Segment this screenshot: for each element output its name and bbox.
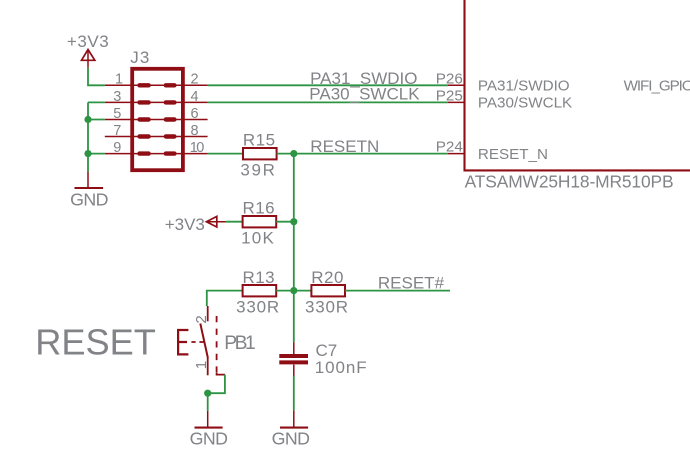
wire pin5 — [88, 119, 105, 121]
wire +3V3 to R16 — [226, 221, 243, 223]
svg-text:P25: P25 — [436, 87, 463, 104]
PB1 actuator dashes horizontal — [191, 341, 204, 343]
PB1 actuator dashes vertical — [216, 316, 218, 373]
wire PB1 to GND — [207, 393, 209, 411]
svg-text:4: 4 — [191, 89, 199, 105]
power symbol +3V3 (at R16) — [165, 215, 226, 234]
svg-text:PA30_SWCLK: PA30_SWCLK — [309, 84, 420, 103]
svg-text:330R: 330R — [305, 297, 349, 316]
svg-text:R13: R13 — [242, 268, 275, 287]
J3 pin pads — [140, 85, 175, 153]
wire C7 to GND — [293, 376, 295, 411]
svg-text:1: 1 — [115, 72, 123, 88]
junction R13/R20 — [290, 287, 297, 294]
junction at R16 — [290, 218, 297, 225]
IC pin stub P26 — [448, 84, 465, 86]
junction pin9 — [84, 150, 91, 157]
wire PB1 to junction — [208, 375, 225, 394]
svg-text:RESET_N: RESET_N — [478, 146, 548, 163]
svg-text:6: 6 — [191, 106, 199, 122]
svg-text:R15: R15 — [243, 131, 276, 150]
svg-text:RESET#: RESET# — [378, 274, 445, 293]
svg-text:PB1: PB1 — [224, 333, 255, 354]
svg-text:9: 9 — [113, 140, 121, 156]
svg-text:GND: GND — [272, 429, 310, 449]
ground GND (under J3) — [70, 172, 108, 210]
svg-text:RESETN: RESETN — [310, 137, 379, 156]
svg-text:2: 2 — [191, 72, 199, 88]
svg-text:GND: GND — [190, 429, 228, 449]
pushbutton PB1 — [178, 306, 255, 375]
power symbol +3V3 (top-left) — [67, 32, 109, 68]
junction pin5 — [84, 116, 91, 123]
svg-text:R20: R20 — [311, 268, 344, 287]
PB1 lever — [200, 324, 208, 359]
PB1 contact step — [217, 373, 225, 375]
PB1 actuator bracket — [178, 330, 188, 354]
wire pin9 — [88, 153, 105, 155]
wire GND branch pin3 — [88, 101, 105, 103]
junction RESETN at R15 — [290, 150, 297, 157]
ground GND (under C7) — [272, 411, 310, 449]
svg-text:1: 1 — [193, 361, 210, 369]
svg-text:10K: 10K — [241, 228, 275, 247]
svg-text:3: 3 — [113, 89, 121, 105]
svg-text:2: 2 — [193, 315, 210, 323]
IC U1 ATSAMW25H18 box — [465, 0, 690, 170]
resistor R16 — [241, 198, 276, 247]
ground GND (under PB1) — [190, 411, 228, 449]
resistor R15 — [240, 131, 276, 180]
wire net PA31_SWDIO — [208, 84, 448, 86]
svg-text:PA30/SWCLK: PA30/SWCLK — [478, 95, 572, 112]
wire R13 to R20 — [276, 290, 311, 292]
PB1 pin 2 lead — [207, 306, 209, 321]
svg-text:GND: GND — [70, 189, 108, 209]
wire pin10 to R15 — [208, 153, 243, 155]
svg-text:39R: 39R — [240, 160, 276, 179]
wire +3V3 to J3 pin 1 — [88, 68, 105, 86]
IC pin stub P25 — [448, 101, 465, 103]
wire RESET branch left — [207, 291, 243, 306]
junction PB1 bottom — [204, 390, 211, 397]
wire net RESET# — [345, 290, 450, 292]
capacitor C7 — [279, 341, 367, 377]
svg-text:ATSAMW25H18-MR510PB: ATSAMW25H18-MR510PB — [465, 172, 674, 192]
svg-text:RESET: RESET — [35, 322, 156, 363]
svg-text:R16: R16 — [242, 198, 275, 217]
svg-text:J3: J3 — [130, 48, 150, 67]
svg-text:PA31/SWDIO: PA31/SWDIO — [478, 77, 570, 94]
svg-text:P26: P26 — [436, 70, 463, 87]
wire net PA30_SWCLK — [208, 101, 448, 103]
svg-text:5: 5 — [113, 106, 121, 122]
wire vertical RESETN — [293, 154, 295, 343]
wire R16 to junction — [276, 221, 294, 223]
wire GND vertical — [87, 102, 89, 171]
svg-text:8: 8 — [191, 123, 199, 139]
resistor R13 — [236, 268, 280, 316]
connector J3 — [130, 48, 183, 170]
J3 left pin stubs — [105, 85, 208, 153]
svg-text:WIFI_GPIO: WIFI_GPIO — [624, 77, 690, 94]
svg-text:100nF: 100nF — [315, 358, 368, 377]
wire net RESETN — [277, 153, 448, 155]
svg-text:330R: 330R — [236, 297, 280, 316]
J3 pin numbers left — [113, 72, 123, 156]
IC pin stub P24 — [448, 153, 465, 155]
J3 pin numbers right — [190, 72, 205, 156]
resistor R20 — [305, 268, 349, 316]
svg-text:10: 10 — [190, 140, 205, 156]
svg-text:+3V3: +3V3 — [165, 215, 205, 234]
svg-text:7: 7 — [113, 123, 121, 139]
svg-text:P24: P24 — [436, 139, 463, 156]
PB1 pin 1 lead — [207, 358, 209, 375]
